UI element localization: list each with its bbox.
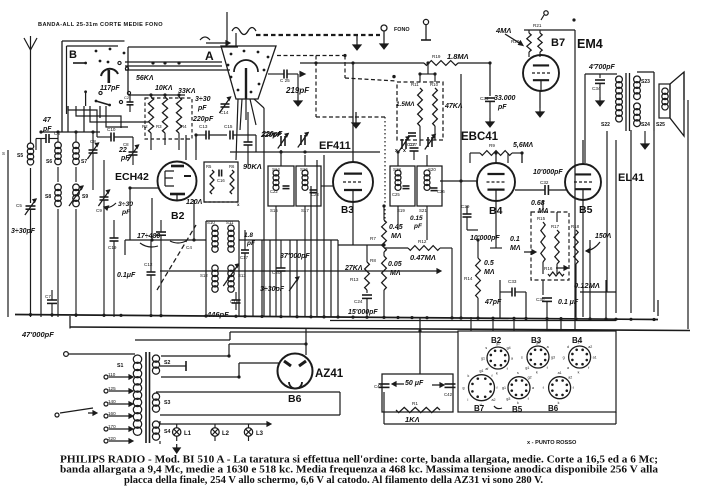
svg-text:af: af bbox=[485, 367, 488, 371]
label 33K bbox=[178, 88, 196, 95]
tube B2 ECH42 bbox=[158, 162, 197, 201]
svg-text:125: 125 bbox=[108, 386, 116, 391]
IF0 frame bbox=[206, 221, 239, 317]
bus third bbox=[330, 320, 616, 322]
svg-text:C27: C27 bbox=[407, 142, 416, 147]
socket box bbox=[458, 331, 616, 412]
svg-text:C18: C18 bbox=[230, 299, 239, 304]
label S15 S17 bbox=[270, 208, 309, 213]
svg-text:S: S bbox=[2, 151, 5, 156]
svg-text:L3: L3 bbox=[256, 431, 264, 437]
staircase wires bbox=[68, 106, 148, 137]
svg-text:g3: g3 bbox=[506, 397, 510, 401]
svg-text:a2: a2 bbox=[588, 345, 592, 349]
cap 117pF bbox=[100, 85, 134, 112]
wire S4 bot bbox=[160, 269, 441, 444]
cap C34b bbox=[592, 74, 605, 106]
svg-text:S10: S10 bbox=[207, 220, 215, 225]
svg-text:a2: a2 bbox=[568, 376, 572, 380]
svg-text:a: a bbox=[567, 366, 569, 370]
svg-text:a: a bbox=[532, 386, 534, 390]
svg-text:C32: C32 bbox=[540, 180, 549, 185]
svg-text:FONO: FONO bbox=[394, 27, 410, 33]
svg-text:C 25: C 25 bbox=[280, 78, 290, 83]
switch wafer B bbox=[62, 41, 131, 132]
svg-text:47'000pF: 47'000pF bbox=[21, 330, 54, 339]
svg-text:C17: C17 bbox=[240, 255, 249, 260]
svg-text:a1: a1 bbox=[558, 371, 562, 375]
speaker bbox=[659, 72, 684, 136]
svg-text:R4: R4 bbox=[181, 124, 187, 129]
label S1 bbox=[117, 363, 123, 369]
svg-text:0.05: 0.05 bbox=[388, 261, 402, 268]
label 0.1M bbox=[510, 236, 536, 254]
svg-text:90KΛ: 90KΛ bbox=[243, 162, 262, 171]
svg-text:f: f bbox=[573, 386, 574, 390]
cap C29 bbox=[461, 204, 500, 242]
wire b3 top bbox=[352, 63, 354, 162]
svg-text:10KΛ: 10KΛ bbox=[155, 85, 173, 92]
trimmer C9 bbox=[96, 160, 110, 317]
wire B contacts bbox=[68, 106, 100, 132]
cap C26 bbox=[431, 188, 446, 194]
label 220pF top bbox=[261, 131, 283, 138]
label 50uF bbox=[392, 380, 444, 387]
svg-text:R15: R15 bbox=[537, 216, 546, 221]
svg-text:C24: C24 bbox=[354, 299, 363, 304]
tap 110 bbox=[104, 372, 133, 379]
coil S4 bbox=[152, 421, 170, 440]
svg-text:g2: g2 bbox=[528, 376, 532, 380]
wire R19 right bbox=[458, 63, 490, 96]
svg-text:S6: S6 bbox=[46, 159, 52, 165]
socket B5b bbox=[502, 371, 534, 414]
resistor R4 bbox=[176, 97, 187, 133]
cap C7 47000pF bbox=[21, 290, 57, 339]
coil S6 bbox=[46, 132, 61, 182]
svg-text:0.1μF: 0.1μF bbox=[117, 272, 136, 279]
svg-text:R10: R10 bbox=[430, 82, 439, 87]
wire r-bottom bbox=[151, 133, 179, 150]
svg-text:S15: S15 bbox=[270, 208, 278, 213]
coil S24 bbox=[634, 103, 666, 128]
resistor R15 bbox=[537, 216, 546, 262]
svg-text:k: k bbox=[558, 401, 560, 405]
svg-text:3÷30pF: 3÷30pF bbox=[11, 228, 36, 235]
label EBC41 bbox=[461, 131, 499, 143]
tap 140 bbox=[104, 399, 133, 406]
label A bbox=[205, 49, 214, 63]
svg-text:33.000: 33.000 bbox=[494, 95, 516, 102]
svg-text:R1: R1 bbox=[412, 401, 418, 406]
wire extra drops left bbox=[253, 160, 331, 317]
label B2 bbox=[171, 210, 185, 222]
svg-text:C30: C30 bbox=[536, 297, 545, 302]
cap C37 bbox=[403, 140, 420, 160]
svg-text:4MΛ: 4MΛ bbox=[495, 26, 511, 35]
coil S22 bbox=[601, 76, 622, 128]
svg-text:R7: R7 bbox=[370, 236, 376, 241]
svg-text:k: k bbox=[578, 371, 580, 375]
svg-text:S5: S5 bbox=[17, 153, 23, 159]
IF1 can bbox=[268, 166, 321, 206]
wire em4 vertical bbox=[574, 30, 576, 330]
svg-text:s: s bbox=[578, 341, 580, 345]
label 3-30pF C5 bbox=[11, 228, 36, 235]
svg-text:R12: R12 bbox=[418, 239, 427, 244]
cap C30 bbox=[536, 297, 579, 317]
wires A drops bbox=[236, 99, 264, 317]
svg-text:47KΛ: 47KΛ bbox=[444, 103, 463, 110]
wire heater1 bbox=[161, 344, 306, 356]
svg-text:g2: g2 bbox=[536, 341, 540, 345]
elect box bbox=[382, 374, 453, 412]
resistor R10 bbox=[430, 82, 463, 126]
label B5 bbox=[579, 204, 593, 216]
svg-text:47: 47 bbox=[42, 117, 52, 124]
resistor R21 bbox=[533, 23, 542, 52]
wire grid line bbox=[230, 135, 380, 152]
svg-text:5,6MΛ: 5,6MΛ bbox=[513, 142, 534, 149]
svg-text:s: s bbox=[517, 371, 519, 375]
wire b4 top bbox=[495, 153, 497, 163]
svg-text:B3: B3 bbox=[341, 205, 354, 216]
svg-text:S3: S3 bbox=[164, 400, 170, 406]
resistor R3 bbox=[156, 97, 168, 133]
wire R9 ends bbox=[470, 153, 522, 163]
svg-text:0.45: 0.45 bbox=[389, 224, 403, 231]
wire top em4 bbox=[524, 30, 575, 57]
label 068M bbox=[531, 200, 549, 215]
wire right col bbox=[616, 130, 654, 313]
svg-text:0.5: 0.5 bbox=[484, 260, 494, 267]
svg-text:k: k bbox=[496, 372, 498, 376]
svg-text:R8: R8 bbox=[370, 258, 376, 263]
svg-text:MΛ: MΛ bbox=[391, 233, 402, 240]
wire bus to sockets bbox=[471, 317, 561, 331]
svg-text:C10: C10 bbox=[107, 127, 116, 132]
label 4700pF bbox=[588, 64, 616, 71]
svg-text:160: 160 bbox=[108, 411, 116, 416]
label FONO bbox=[394, 27, 410, 33]
svg-text:R14: R14 bbox=[464, 276, 473, 281]
wire box wires bbox=[420, 63, 435, 140]
label EF411 bbox=[319, 140, 351, 152]
coil S18 bbox=[393, 167, 401, 190]
IF2 can bbox=[390, 166, 442, 206]
svg-text:f: f bbox=[492, 374, 493, 378]
node S55 wire bbox=[2, 150, 8, 317]
coil S12 bbox=[200, 265, 218, 292]
label 4M bbox=[495, 26, 523, 46]
wire B7 cathode bbox=[536, 91, 544, 117]
tap 170 bbox=[104, 424, 133, 431]
svg-text:0.1: 0.1 bbox=[510, 236, 520, 243]
svg-text:R3: R3 bbox=[156, 124, 162, 129]
cap C25 219pF bbox=[268, 70, 310, 107]
label EL41 bbox=[618, 172, 644, 184]
socket B7b bbox=[463, 369, 503, 413]
label 012M bbox=[574, 281, 600, 290]
cap C18 446pF bbox=[206, 292, 241, 319]
arc arrows C4 bbox=[140, 241, 186, 247]
power core bbox=[146, 352, 150, 443]
svg-text:A: A bbox=[205, 49, 214, 63]
coil S16 bbox=[300, 167, 308, 190]
svg-text:R11: R11 bbox=[411, 82, 419, 87]
svg-text:R5: R5 bbox=[206, 164, 212, 169]
svg-text:a: a bbox=[547, 345, 549, 349]
svg-text:R9: R9 bbox=[489, 143, 495, 148]
svg-text:d: d bbox=[567, 345, 569, 349]
label 150 bbox=[586, 233, 612, 253]
tube B7 EM4 bbox=[523, 37, 565, 91]
wire plate rail bbox=[300, 62, 424, 64]
antenna bbox=[24, 36, 37, 143]
socket B6b bbox=[543, 371, 574, 413]
svg-text:f: f bbox=[543, 386, 544, 390]
svg-text:B6: B6 bbox=[548, 404, 559, 413]
svg-text:1.5MΛ: 1.5MΛ bbox=[396, 101, 414, 108]
label B3 bbox=[341, 205, 354, 216]
resistor R11 bbox=[396, 82, 422, 126]
resistor R20 bbox=[511, 33, 531, 52]
cap C32 10000pF bbox=[515, 169, 566, 195]
terminal fono2 bbox=[421, 19, 431, 40]
label 90K bbox=[243, 162, 262, 171]
svg-text:S8: S8 bbox=[45, 194, 51, 200]
cap C25b bbox=[392, 186, 410, 197]
trimmer C8 bbox=[87, 132, 98, 190]
tap 160 bbox=[104, 411, 133, 418]
lamp L1 bbox=[173, 424, 192, 453]
svg-text:1.8MΛ: 1.8MΛ bbox=[447, 52, 469, 61]
tube B3 EF411 bbox=[333, 162, 373, 202]
wire S2 tap bbox=[160, 361, 186, 371]
svg-text:0.12MΛ: 0.12MΛ bbox=[574, 281, 600, 290]
svg-text:56KΛ: 56KΛ bbox=[136, 75, 154, 82]
resistor R13 bbox=[344, 262, 369, 290]
tube B6 AZ41 bbox=[278, 354, 313, 389]
svg-text:R2: R2 bbox=[142, 124, 148, 129]
coil S2 bbox=[152, 355, 170, 374]
dashed box R10R11 bbox=[397, 82, 443, 140]
cap C22 bbox=[270, 186, 290, 194]
label AZ41 bbox=[315, 368, 344, 380]
dashed box R2R4 bbox=[145, 98, 192, 139]
wire S3 bot bbox=[160, 392, 340, 415]
svg-text:C41: C41 bbox=[374, 384, 383, 389]
svg-text:k: k bbox=[467, 374, 469, 378]
socket B3 bbox=[521, 336, 555, 375]
outer box bbox=[384, 392, 616, 424]
wire IF2 bbox=[398, 152, 427, 240]
svg-text:110: 110 bbox=[108, 372, 116, 377]
svg-text:g: g bbox=[463, 386, 465, 390]
resistor R8 bbox=[370, 256, 402, 290]
svg-text:R6: R6 bbox=[229, 164, 235, 169]
svg-text:47pF: 47pF bbox=[484, 299, 502, 306]
cap C12 bbox=[117, 240, 156, 317]
wire IF1 bbox=[276, 150, 333, 317]
dashed box R15 bbox=[531, 212, 569, 280]
svg-text:S16: S16 bbox=[300, 167, 308, 172]
svg-text:150Λ: 150Λ bbox=[595, 233, 612, 240]
svg-text:33KΛ: 33KΛ bbox=[178, 88, 196, 95]
wire coil top rail bbox=[41, 131, 100, 133]
wire misc drops bbox=[186, 135, 338, 317]
trim arrows IF1 bbox=[278, 133, 309, 149]
cap 47pF C6 bbox=[36, 117, 60, 150]
wire extra drops bbox=[392, 74, 606, 318]
svg-text:ECH42: ECH42 bbox=[115, 171, 149, 183]
wire heater feed bbox=[135, 332, 458, 340]
svg-text:220: 220 bbox=[108, 436, 116, 441]
coil S20 bbox=[424, 167, 436, 190]
label S19 S21 bbox=[397, 208, 427, 213]
cap C41 bbox=[374, 384, 390, 389]
wire cluster drops bbox=[543, 200, 576, 317]
svg-text:B5: B5 bbox=[579, 204, 593, 216]
bus junction dots bbox=[29, 313, 656, 321]
cap 220pF C13 bbox=[192, 116, 227, 140]
svg-text:R17: R17 bbox=[551, 224, 560, 229]
svg-text:3÷30: 3÷30 bbox=[195, 96, 211, 103]
svg-text:C22: C22 bbox=[270, 189, 278, 194]
wire s22 return bbox=[580, 131, 616, 292]
dotted fono line bbox=[256, 34, 380, 36]
svg-text:B7: B7 bbox=[551, 37, 565, 49]
svg-text:15'000pF: 15'000pF bbox=[348, 309, 378, 316]
cap C24 bbox=[348, 290, 378, 317]
resistor R17 bbox=[551, 224, 560, 264]
svg-text:C33: C33 bbox=[508, 279, 517, 284]
transformer core bbox=[626, 73, 630, 131]
svg-text:C13: C13 bbox=[199, 124, 208, 129]
svg-text:B2: B2 bbox=[171, 210, 185, 222]
svg-text:R18: R18 bbox=[571, 224, 580, 229]
svg-text:EM4: EM4 bbox=[577, 37, 603, 51]
svg-text:pF: pF bbox=[413, 223, 423, 230]
coil S5 bbox=[17, 143, 34, 165]
wire sec bbox=[637, 72, 654, 149]
svg-text:g2: g2 bbox=[496, 342, 500, 346]
cap C33 47pF bbox=[484, 279, 526, 306]
wire drops mid bbox=[353, 153, 583, 317]
wire el41 top bbox=[582, 140, 584, 164]
wires top rails bbox=[125, 47, 238, 95]
svg-text:S21: S21 bbox=[419, 208, 427, 213]
svg-text:S4: S4 bbox=[164, 429, 170, 435]
trimmer C14 bbox=[195, 96, 231, 115]
coil S13 bbox=[223, 264, 246, 292]
cap C20 bbox=[260, 240, 310, 317]
wire mid horizontals bbox=[125, 240, 338, 255]
svg-text:S18: S18 bbox=[393, 167, 401, 172]
wire antenna low bbox=[30, 168, 32, 203]
terminal fono1 bbox=[380, 25, 388, 49]
svg-text:f: f bbox=[497, 386, 498, 390]
svg-text:pF: pF bbox=[121, 209, 131, 216]
wire out top bbox=[585, 74, 617, 163]
cap C4 bbox=[137, 220, 192, 317]
resistor R2 bbox=[142, 97, 154, 133]
svg-text:S14: S14 bbox=[272, 167, 280, 172]
caption line3 bbox=[124, 475, 544, 486]
wire R12 ends bbox=[384, 248, 452, 317]
label B6 bbox=[288, 393, 302, 405]
rotary switch A bbox=[221, 12, 276, 99]
svg-text:S22: S22 bbox=[601, 122, 610, 128]
wire b6 anode bbox=[305, 329, 307, 356]
svg-text:g1: g1 bbox=[480, 369, 484, 373]
cap 22pF C10 bbox=[97, 127, 133, 162]
text band labels bbox=[38, 22, 163, 28]
mains switch bbox=[55, 408, 97, 417]
svg-text:S1: S1 bbox=[117, 363, 123, 369]
svg-text:C2: C2 bbox=[124, 95, 130, 100]
coil S3 bbox=[152, 393, 170, 412]
svg-text:x - PUNTO ROSSO: x - PUNTO ROSSO bbox=[527, 440, 577, 446]
svg-text:C9: C9 bbox=[96, 208, 102, 213]
svg-text:50 μF: 50 μF bbox=[405, 380, 424, 387]
wire S4 top bbox=[160, 421, 271, 426]
label punto rosso bbox=[527, 440, 577, 446]
svg-text:g1: g1 bbox=[502, 386, 506, 390]
svg-text:C19: C19 bbox=[108, 245, 117, 250]
svg-text:C8: C8 bbox=[123, 142, 129, 147]
coil S9 bbox=[69, 184, 88, 317]
coil S8 bbox=[45, 184, 61, 317]
coil S10 bbox=[207, 220, 218, 252]
tube B5 EL41 bbox=[565, 164, 601, 200]
svg-text:S9: S9 bbox=[82, 194, 88, 200]
coil S11 bbox=[226, 220, 234, 252]
svg-text:C42: C42 bbox=[444, 392, 453, 397]
caption line2 bbox=[60, 465, 658, 476]
svg-text:g: g bbox=[563, 356, 565, 360]
svg-text:EF411: EF411 bbox=[319, 140, 351, 152]
svg-text:R20: R20 bbox=[511, 39, 520, 44]
svg-text:C14: C14 bbox=[220, 110, 229, 115]
svg-text:pF: pF bbox=[497, 104, 507, 111]
cap C34 33000pF bbox=[480, 95, 516, 127]
svg-text:R16: R16 bbox=[544, 266, 553, 271]
trimmer C5 bbox=[16, 199, 36, 317]
svg-text:22: 22 bbox=[118, 147, 127, 154]
dashed AVC bbox=[277, 56, 397, 118]
lamp L3 bbox=[244, 424, 263, 441]
svg-text:L1: L1 bbox=[184, 431, 192, 437]
svg-text:pF: pF bbox=[197, 105, 207, 112]
svg-text:a1: a1 bbox=[593, 356, 597, 360]
svg-text:S23: S23 bbox=[641, 79, 650, 85]
svg-text:C26: C26 bbox=[437, 189, 445, 194]
coil S23 bbox=[634, 76, 651, 100]
caption line1 bbox=[60, 454, 658, 465]
label 10K bbox=[155, 85, 173, 92]
svg-text:L2: L2 bbox=[222, 431, 230, 437]
cap C27 bbox=[395, 133, 416, 154]
svg-text:MΛ: MΛ bbox=[484, 269, 495, 276]
wire R7 top bbox=[383, 206, 385, 317]
svg-text:37'000pF: 37'000pF bbox=[280, 253, 310, 260]
label 015pF bbox=[410, 215, 423, 230]
svg-text:C23: C23 bbox=[311, 192, 319, 197]
wire S3 top bbox=[156, 391, 340, 393]
wire bus links bbox=[70, 300, 658, 329]
svg-text:B: B bbox=[69, 49, 77, 61]
